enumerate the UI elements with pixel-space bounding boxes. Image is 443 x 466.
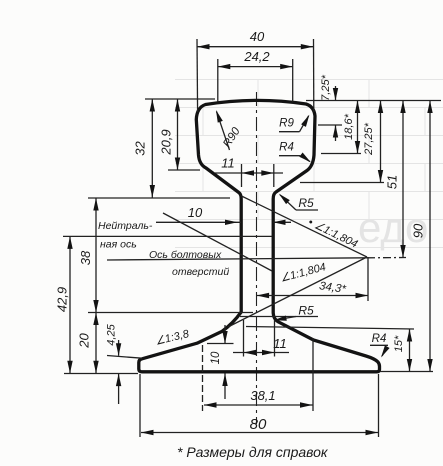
svg-text:* Размеры для справок: * Размеры для справок bbox=[177, 444, 329, 460]
svg-text:15*: 15* bbox=[393, 335, 405, 352]
dim 80 extension lines bbox=[139, 374, 141, 437]
dim 10 (foot thickness) bbox=[224, 325, 226, 344]
slope leader through web bbox=[163, 213, 272, 271]
svg-text:R4: R4 bbox=[279, 142, 294, 154]
dim 10 (web) bbox=[156, 221, 241, 223]
svg-text:ная ось: ная ось bbox=[100, 239, 137, 251]
bolt hole axis line bbox=[107, 258, 367, 260]
dim 4,25 bbox=[118, 340, 120, 356]
svg-text:4,25: 4,25 bbox=[106, 323, 118, 345]
svg-text:27,25*: 27,25* bbox=[363, 122, 375, 156]
svg-text:20,9: 20,9 bbox=[159, 129, 174, 155]
foot bottom extension left bbox=[64, 373, 138, 375]
watermark brick grid bbox=[175, 80, 443, 248]
svg-text:отверстий: отверстий bbox=[172, 266, 229, 278]
svg-text:24,2: 24,2 bbox=[243, 49, 270, 64]
svg-text:R5: R5 bbox=[298, 196, 314, 210]
svg-text:10: 10 bbox=[188, 205, 203, 220]
dim 27,25* reference line bbox=[300, 182, 384, 184]
svg-text:Нейтраль-: Нейтраль- bbox=[98, 220, 153, 232]
dim 38 bbox=[95, 198, 97, 313]
svg-text:18,6*: 18,6* bbox=[343, 113, 355, 139]
svg-text:42,9: 42,9 bbox=[55, 287, 70, 312]
dim 11 (web at foot) extension lines bbox=[243, 320, 245, 357]
20,9 reference line bbox=[168, 169, 200, 171]
head top extension line right bbox=[306, 100, 441, 102]
leader R4 (foot tip) bbox=[370, 344, 388, 346]
slope leader upper (web to P) bbox=[242, 196, 368, 257]
neutral axis line bbox=[63, 235, 272, 237]
dim 15* reference line bbox=[246, 327, 414, 330]
foot bottom extension right bbox=[380, 371, 433, 373]
leader R5 (upper web fillet) bbox=[296, 209, 318, 211]
svg-text:11: 11 bbox=[221, 156, 235, 171]
svg-text:10: 10 bbox=[210, 351, 222, 364]
dim 34,3* bbox=[257, 295, 368, 297]
slope leader lower (P to foot) bbox=[228, 257, 367, 327]
38/20 boundary reference line bbox=[88, 312, 253, 314]
dim 7,25* bbox=[335, 86, 337, 101]
svg-text:32: 32 bbox=[133, 141, 148, 156]
leader R90 bbox=[217, 112, 230, 151]
rail profile outline bbox=[139, 100, 380, 371]
dim 90 bbox=[429, 101, 431, 372]
svg-text:R5: R5 bbox=[298, 304, 314, 318]
dim 11 (head/web junction) bbox=[241, 164, 243, 187]
dim 51 bbox=[402, 101, 404, 258]
4,25 reference line bbox=[107, 356, 142, 359]
dim 38,1 extension lines bbox=[202, 345, 204, 411]
dim 15* bbox=[409, 329, 411, 372]
svg-text:R4: R4 bbox=[372, 333, 387, 345]
svg-text:20: 20 bbox=[77, 333, 92, 349]
dim 18,6* reference line bbox=[321, 153, 361, 155]
neutral axis extension (32/38 boundary) bbox=[88, 197, 230, 199]
dim 18,6* bbox=[357, 101, 359, 154]
leader R4 (head) bbox=[279, 155, 300, 157]
svg-text:7,25*: 7,25* bbox=[320, 74, 332, 100]
dim 38,1 bbox=[204, 404, 313, 406]
dim 42,9 bbox=[69, 236, 71, 373]
svg-text:40: 40 bbox=[250, 29, 265, 44]
svg-text:38: 38 bbox=[78, 250, 93, 265]
svg-text:80: 80 bbox=[250, 416, 267, 433]
dim 32 bbox=[151, 99, 153, 198]
head top extension line left bbox=[145, 98, 215, 100]
dim 24,2 (head crown) bbox=[218, 66, 293, 68]
dim 10 (foot thickness) reference tick bbox=[207, 343, 234, 345]
dim 7,25* reference line bbox=[318, 124, 342, 126]
centerline (dash-dot) bbox=[256, 92, 258, 424]
dim 20 bbox=[95, 313, 97, 374]
svg-text:38,1: 38,1 bbox=[250, 388, 275, 403]
dim 40 (head width) bbox=[197, 46, 313, 48]
svg-text:90: 90 bbox=[411, 223, 426, 238]
dim 20,9 bbox=[177, 99, 179, 170]
svg-text:R9: R9 bbox=[279, 118, 294, 130]
dim 11 (web at foot) bbox=[233, 352, 289, 354]
leader R5 (lower web fillet) bbox=[240, 316, 318, 318]
leader R9 bbox=[279, 131, 300, 133]
dim 80 bbox=[141, 432, 378, 434]
dim 27,25* bbox=[380, 101, 382, 183]
svg-text:51: 51 bbox=[385, 175, 400, 189]
svg-text:11: 11 bbox=[273, 336, 287, 351]
